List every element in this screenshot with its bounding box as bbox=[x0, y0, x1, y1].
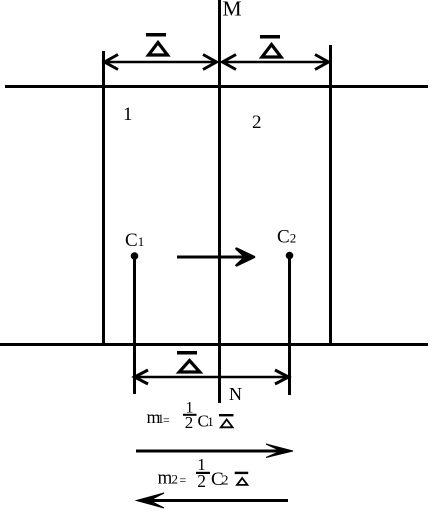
wire: top boundary horizontal line bbox=[5, 85, 428, 88]
dimension arrow bottom (double headed) bbox=[134, 370, 289, 384]
svg-text:N: N bbox=[229, 384, 242, 404]
wire: central vertical axis M-N bbox=[218, 0, 221, 403]
node C1 dot bbox=[131, 252, 139, 260]
wire: C2 stem bbox=[288, 256, 291, 396]
svg-text:=: = bbox=[163, 413, 170, 427]
reaction arrow left (long) bbox=[137, 493, 289, 508]
wire: bottom boundary horizontal line bbox=[0, 343, 428, 346]
svg-text:2: 2 bbox=[185, 413, 194, 432]
dimension arrow right (double headed) bbox=[222, 55, 329, 70]
displacement arrow C1 to C2 bbox=[177, 249, 254, 266]
svg-text:=: = bbox=[180, 473, 187, 487]
dimension arrow left (double headed) bbox=[104, 55, 217, 70]
svg-text:2: 2 bbox=[222, 474, 229, 489]
delta-bar symbol bottom bbox=[177, 351, 200, 372]
svg-text:C2: C2 bbox=[277, 227, 296, 248]
svg-text:1: 1 bbox=[207, 414, 214, 429]
delta-bar symbol top right bbox=[260, 35, 281, 57]
svg-text:2: 2 bbox=[252, 112, 262, 133]
formula m2 = 1/2 C2 delta-bar bbox=[158, 455, 249, 491]
wire: left vertical line bbox=[102, 51, 105, 346]
svg-text:2: 2 bbox=[197, 471, 206, 491]
svg-text:C1: C1 bbox=[125, 230, 144, 251]
svg-text:M: M bbox=[223, 0, 242, 21]
wire: right vertical line bbox=[329, 45, 332, 346]
svg-text:2: 2 bbox=[172, 472, 179, 487]
formula m1 = 1/2 C1 delta-bar bbox=[147, 400, 234, 433]
svg-text:1: 1 bbox=[123, 104, 133, 125]
svg-text:m: m bbox=[158, 468, 173, 489]
wire: C1 stem bbox=[133, 256, 136, 394]
node C2 dot bbox=[286, 252, 294, 260]
delta-bar symbol top left bbox=[146, 33, 168, 55]
reaction arrow right (long) bbox=[136, 444, 293, 458]
